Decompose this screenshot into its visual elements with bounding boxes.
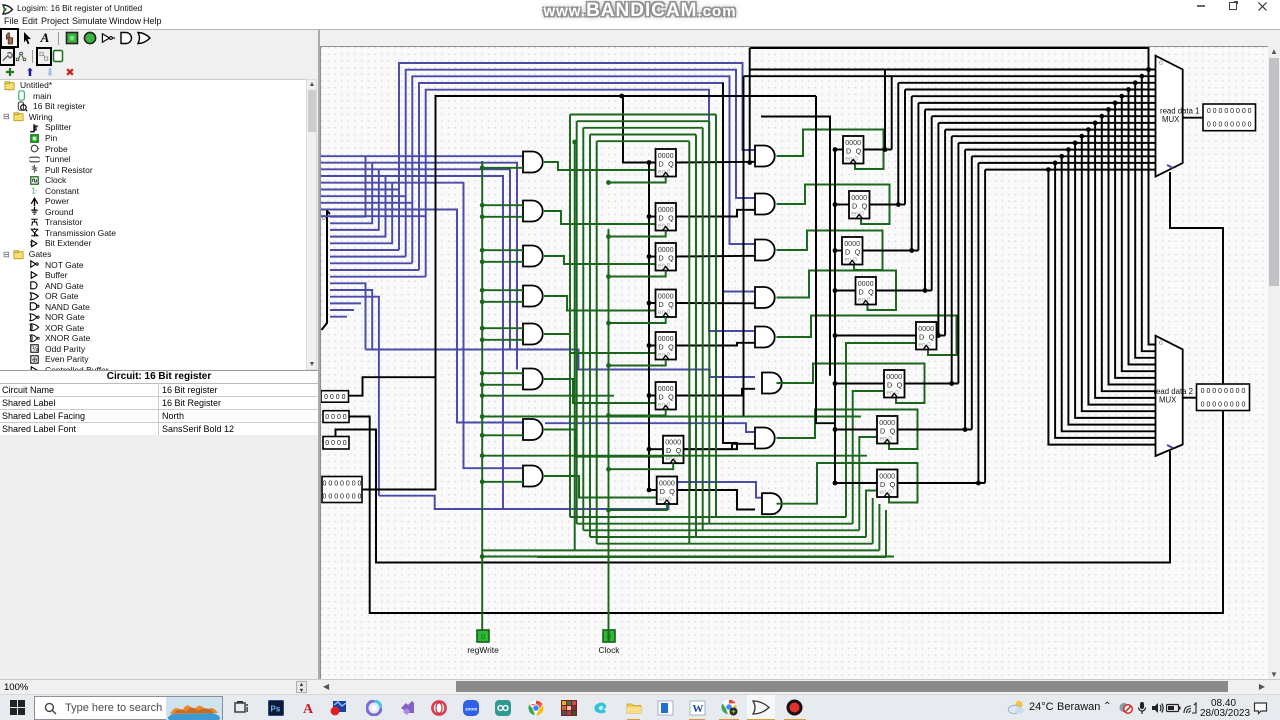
svg-text:Ps: Ps xyxy=(270,704,280,713)
wire ff1-1 Q to and2 xyxy=(676,161,755,164)
wire ff1-6 D stub xyxy=(649,395,656,397)
svg-text:D: D xyxy=(845,248,850,257)
wire green ff1-6 clock hook xyxy=(609,410,666,416)
svg-text:Q: Q xyxy=(669,487,675,496)
wire blue bus top 3 xyxy=(419,83,755,292)
wire ff2-7 Q stub xyxy=(898,429,972,431)
wire ff1-5 Q to and2 xyxy=(676,343,755,346)
taskbar icon copilot xyxy=(365,699,382,716)
and gate A1-3 xyxy=(523,246,543,267)
taskbar icon zoom xyxy=(462,699,479,716)
wire data col1 vertical xyxy=(648,163,650,491)
wire green long y555.5 xyxy=(482,556,894,558)
svg-text:D: D xyxy=(880,427,885,436)
svg-text:Q: Q xyxy=(676,446,682,455)
wire ff2-5 Q stub xyxy=(937,335,946,337)
taskbar weather xyxy=(1007,699,1025,716)
svg-text:0 0 0 0 0 0 0 0: 0 0 0 0 0 0 0 0 xyxy=(1207,108,1252,115)
wire splitter fan 14 xyxy=(330,309,354,311)
wire green riser 573 xyxy=(574,142,576,550)
svg-text:0 0 0 0 0 0 0 0: 0 0 0 0 0 0 0 0 xyxy=(1207,122,1252,129)
flip-flop FF1-6 xyxy=(656,382,677,410)
pin regWrite xyxy=(467,630,499,655)
flip-flop FF2-5 xyxy=(916,322,937,350)
wire ff2-4 D stub xyxy=(835,290,856,292)
taskbar icon logisim (active) xyxy=(747,695,775,720)
svg-text:Q: Q xyxy=(897,381,903,390)
pin output readdata1 xyxy=(1183,117,1203,119)
svg-text:Clock: Clock xyxy=(599,645,621,655)
wire vertical x748 xyxy=(749,48,751,163)
wire blue weave 3 xyxy=(321,176,503,509)
wire blue edge entry 4 xyxy=(321,215,426,217)
bandicam watermark xyxy=(0,0,1280,22)
svg-text:W: W xyxy=(692,703,703,715)
wire ff2-8 Q stub xyxy=(898,482,986,484)
and gate A1-7 xyxy=(523,419,543,440)
wire splitter fan 2 xyxy=(330,169,379,230)
svg-text:0 0 0 0 0 0 0: 0 0 0 0 0 0 0 xyxy=(323,494,362,501)
svg-text:½: ½ xyxy=(32,346,38,354)
svg-text:0 0 0 0: 0 0 0 0 xyxy=(325,414,347,421)
taskbar icon bandicam recording xyxy=(786,699,803,716)
wire ff2-6 D stub xyxy=(835,383,884,385)
svg-text:D: D xyxy=(659,214,664,223)
taskbar icon word xyxy=(689,699,706,716)
wire ff2-3 D stub xyxy=(835,250,842,252)
wire mux1 select route xyxy=(349,172,1223,613)
flip-flop FF1-5 xyxy=(656,332,677,360)
mux MUX1 read data 1 xyxy=(1156,56,1183,177)
wire ff1-1 D stub xyxy=(649,162,656,164)
svg-text:Q: Q xyxy=(668,393,674,402)
wire blue select S2 xyxy=(366,350,756,378)
wire green and1-5 out xyxy=(544,334,656,353)
wire mux2 select route xyxy=(336,430,1171,563)
wire green and1-2 input xyxy=(482,216,523,218)
pin output readdata2 xyxy=(1183,397,1197,399)
taskbar icon app blue-red xyxy=(330,699,347,716)
wire ff1-3 Q to and2 xyxy=(676,255,755,258)
wire ff1-8 Q riser xyxy=(677,77,744,491)
wire green and1-3 input xyxy=(482,261,523,263)
wire green and1-5 input xyxy=(482,339,523,341)
svg-text:D: D xyxy=(887,381,892,390)
wire green ff1-3 clock hook xyxy=(609,271,666,277)
svg-text:D: D xyxy=(660,487,665,496)
wire splitter fan 7 xyxy=(330,262,412,264)
and gate A2-4 xyxy=(755,287,775,308)
svg-text:D: D xyxy=(659,300,664,309)
wire ff2-5 D stub xyxy=(835,335,916,337)
wire blue edge entry 2 xyxy=(321,202,412,204)
wire blue bus top 1 xyxy=(406,70,755,257)
svg-text:D: D xyxy=(919,333,924,342)
wire data col2 vertical xyxy=(816,96,835,423)
and gate A1-1 xyxy=(523,152,543,173)
svg-text:D: D xyxy=(859,288,864,297)
wire ff2-8 D stub xyxy=(835,482,877,484)
svg-text:Q: Q xyxy=(668,343,674,352)
wire green and1-4 out xyxy=(544,296,656,311)
wire green ff1-1 clock hook xyxy=(609,177,666,183)
wire green and2-1 loop xyxy=(777,130,884,170)
flip-flop FF1-4 xyxy=(656,290,677,318)
left panel xyxy=(0,30,318,679)
svg-text:D: D xyxy=(659,160,664,169)
wire data col1 trunk xyxy=(623,96,656,163)
flip-flop FF1-8 xyxy=(657,477,678,505)
wire ff1-2 Q to and2 xyxy=(676,210,755,217)
svg-text:Q: Q xyxy=(890,480,896,489)
pin input write-data xyxy=(322,477,362,503)
svg-text:Q: Q xyxy=(856,147,862,156)
flip-flop FF2-7 xyxy=(877,416,898,444)
wire green and1-2 input b xyxy=(482,204,523,206)
svg-text:zoom: zoom xyxy=(465,706,477,711)
taskbar icon visual studio xyxy=(398,699,415,716)
svg-text:-: - xyxy=(35,186,38,195)
wire ff2-3 Q stub xyxy=(863,250,919,252)
svg-text:Q: Q xyxy=(855,248,861,257)
svg-text:Q: Q xyxy=(868,288,874,297)
properties table xyxy=(0,370,318,437)
wire green and1-8 out xyxy=(544,476,657,498)
wire green bottom stack xyxy=(570,516,846,518)
wire ff2-4 Q stub xyxy=(876,290,932,292)
wire data col2 r2 xyxy=(761,117,830,376)
wire splitter fan 6 xyxy=(330,256,406,258)
flip-flop FF2-3 xyxy=(842,237,863,265)
wire splitter fan 15 xyxy=(330,316,347,318)
taskbar icon opera xyxy=(430,699,447,716)
and gate A2-1 xyxy=(755,146,775,167)
output box read data 2 xyxy=(1197,384,1250,411)
wire blue edge entry 1 xyxy=(321,195,406,197)
wire green and1-8 input xyxy=(482,481,523,483)
wire write data trunk xyxy=(362,96,816,490)
wire splitter fan 9 xyxy=(330,276,426,278)
status bar xyxy=(0,679,1280,694)
wire ff1-7 Q riser xyxy=(684,83,738,449)
wire blue weave 4 xyxy=(321,183,523,469)
taskbar icon chrome profile xyxy=(721,699,738,716)
svg-text:Q: Q xyxy=(862,202,868,211)
wire blue row7 xyxy=(545,423,755,432)
wire splitter fan 5 xyxy=(330,249,399,251)
wire ff2-6 Q stub xyxy=(905,383,959,385)
wire green and1-2 out xyxy=(544,211,656,224)
svg-text:MUX: MUX xyxy=(1159,396,1177,405)
svg-text:⊕: ⊕ xyxy=(32,357,38,364)
flip-flop FF1-1 xyxy=(656,149,677,177)
wire blue weave 2 xyxy=(321,169,510,349)
wire green and1-6 out xyxy=(544,379,656,403)
and gate A2-6 xyxy=(762,373,782,394)
wire blue weave 1 xyxy=(321,163,517,370)
svg-text:0 0 0 0: 0 0 0 0 xyxy=(325,440,347,447)
and gate A1-6 xyxy=(523,369,543,390)
svg-text:0: 0 xyxy=(1159,340,1163,347)
taskbar icon photoshop xyxy=(267,699,284,716)
taskbar icon explorer xyxy=(625,699,642,716)
and gate A2-5 xyxy=(755,327,775,348)
wire green and2-4 loop xyxy=(777,271,897,311)
wire splitter fan 4 xyxy=(330,183,392,244)
taskbar icon voov xyxy=(494,699,511,716)
vertical scrollbar xyxy=(1268,46,1280,680)
wire ff1-5 D stub xyxy=(649,345,656,347)
svg-text:D: D xyxy=(666,446,671,455)
wire ff1-4 Q to and2 xyxy=(676,302,755,304)
wire green and2-3 loop xyxy=(777,231,883,271)
wire ff2-2 Q stub xyxy=(870,204,906,206)
svg-text:0: 0 xyxy=(481,634,485,641)
wire green long y394.7 xyxy=(482,395,614,397)
wire ff1-7 D stub xyxy=(649,448,663,450)
canvas xyxy=(320,46,1268,680)
pin input box2 (read reg 2) xyxy=(323,411,349,423)
svg-text:0: 0 xyxy=(1159,60,1163,67)
flip-flop FF2-8 xyxy=(877,470,898,498)
taskbar icon game xyxy=(560,699,577,716)
and gate A1-8 xyxy=(523,466,543,487)
splitter SP1 xyxy=(322,211,331,330)
svg-text:D: D xyxy=(659,254,664,263)
and gate A1-5 xyxy=(523,324,543,345)
canvas grid xyxy=(321,47,1269,681)
horizontal scrollbar xyxy=(320,680,1268,693)
wire green and1-3 input b xyxy=(482,249,523,251)
taskbar icon autocad xyxy=(300,699,317,716)
wire top bus y47 xyxy=(750,48,1149,70)
taskbar icon pdf app xyxy=(657,699,674,716)
svg-text:D: D xyxy=(659,393,664,402)
svg-text:regWrite: regWrite xyxy=(467,645,499,655)
svg-text:D: D xyxy=(846,147,851,156)
wire green long y454.7 xyxy=(482,455,867,457)
wire green ff1-7 clock hook xyxy=(609,463,674,469)
wire ff1-8 D stub xyxy=(649,489,657,491)
wire green and1-5 input b xyxy=(482,327,523,329)
wire blue bus top 0 xyxy=(399,63,755,250)
taskbar xyxy=(0,694,1280,720)
wire green and2-2 loop xyxy=(777,185,890,225)
wire ff2-2 D stub xyxy=(835,204,849,206)
wire green ff1-2 clock hook xyxy=(609,231,666,237)
wire ff2-1 D stub xyxy=(835,149,843,151)
taskbar icon films xyxy=(233,699,250,716)
wire box1 route xyxy=(349,377,436,396)
mux MUX2 read data 2 xyxy=(1156,336,1183,456)
flip-flop FF2-1 xyxy=(843,136,864,164)
svg-text:Q: Q xyxy=(668,214,674,223)
wire blue weave 0 (to AND1 r1 top) xyxy=(321,155,523,157)
wire ff1-2 D stub xyxy=(649,216,656,218)
svg-text:0 0 0 0: 0 0 0 0 xyxy=(324,394,346,401)
wire green and2-8 loop xyxy=(777,463,918,504)
wire green ff1-4 clock hook xyxy=(609,317,666,323)
wire splitter fan 11 xyxy=(330,290,372,350)
wire green and1-7 out xyxy=(544,430,663,457)
flip-flop FF2-2 xyxy=(849,191,870,219)
wire ff1-8 Q to and2 xyxy=(677,490,755,510)
taskbar start button xyxy=(9,699,26,716)
wire green and1-3 out xyxy=(544,256,656,264)
wire splitter fan 12 xyxy=(330,297,379,496)
taskbar icon paint3d xyxy=(592,699,609,716)
svg-text:Q: Q xyxy=(668,300,674,309)
flip-flop FF1-2 xyxy=(656,203,677,231)
svg-text:0 0 0 0 0 0 0 0: 0 0 0 0 0 0 0 0 xyxy=(1201,388,1246,395)
wire blue edge entry 3 (to AND1 r7) xyxy=(321,210,523,423)
and gate A2-8 xyxy=(762,493,782,514)
wire ff2-7 D stub xyxy=(835,429,877,431)
wire green clock riser xyxy=(608,229,610,642)
wire ff1-4 D stub xyxy=(649,302,656,304)
and gate A1-2 xyxy=(523,201,543,222)
wire ff2-1 Q stub xyxy=(864,149,892,151)
and gate A2-7 xyxy=(755,428,775,449)
flip-flop FF1-7 xyxy=(663,436,684,464)
wire green ff1-5 clock hook xyxy=(609,360,666,366)
pin Clock xyxy=(599,630,621,655)
pin input box1 (read reg 1) xyxy=(321,391,349,403)
title bar xyxy=(0,0,1280,15)
wire blue edge entry 0 xyxy=(321,189,399,191)
svg-text:0 0 0 0 0 0 0 0: 0 0 0 0 0 0 0 0 xyxy=(1201,401,1246,408)
output box read data 1 xyxy=(1203,104,1256,131)
wire green and2-5 loop xyxy=(777,316,957,356)
wire green and1-6 input xyxy=(482,384,523,386)
wire green and1-4 input xyxy=(482,301,523,303)
svg-text:MUX: MUX xyxy=(1162,115,1180,124)
and gate A1-4 xyxy=(523,286,543,307)
wire green ff1-8 clock hook xyxy=(609,504,667,510)
svg-text:A: A xyxy=(303,702,314,716)
flip-flop FF2-6 xyxy=(884,370,905,398)
wire Q bundle staircase xyxy=(884,70,886,150)
wire splitter fan 3 xyxy=(330,176,386,237)
wire green and1-1 out xyxy=(544,162,656,170)
wire green top mesh xyxy=(570,114,716,116)
flip-flop FF1-3 xyxy=(656,243,677,271)
wire green and2-6 loop xyxy=(777,364,925,404)
wire green regWrite riser xyxy=(481,161,483,642)
svg-text:D: D xyxy=(659,343,664,352)
wire green and1-7 input xyxy=(482,434,523,436)
wire blue select S1 xyxy=(379,482,762,509)
wire green and2-7 loop xyxy=(777,410,918,450)
taskbar icon chrome xyxy=(527,699,544,716)
wire splitter fan 0 xyxy=(330,156,366,217)
svg-text:Q: Q xyxy=(668,160,674,169)
wire blue bus top 4 xyxy=(426,90,755,331)
svg-text:D: D xyxy=(880,480,885,489)
wire green long y415.5 xyxy=(482,416,861,418)
wire splitter fan 8 xyxy=(330,269,419,271)
wire splitter fan 10 xyxy=(330,283,366,349)
wire blue bus top 2 xyxy=(412,76,755,263)
wire green and1-6 input b xyxy=(482,372,523,374)
menu bar xyxy=(0,15,1280,29)
pin input box3 (write reg) xyxy=(323,437,349,450)
wire splitter fan 1 xyxy=(330,163,372,224)
and gate A2-3 xyxy=(755,240,775,261)
wire green and1-4 input b xyxy=(482,289,523,291)
flip-flop FF2-4 xyxy=(856,277,877,305)
svg-text:D: D xyxy=(852,202,857,211)
wire ff1-7 Q to and2 xyxy=(684,444,756,449)
svg-text:Q: Q xyxy=(668,254,674,263)
wire ff1-6 Q to and2 xyxy=(676,389,755,396)
svg-text:Q: Q xyxy=(929,333,935,342)
wire green and1-1 input xyxy=(482,167,523,169)
wire splitter fan 13 xyxy=(330,302,361,304)
taskbar search box xyxy=(34,696,223,720)
svg-text:Q: Q xyxy=(890,427,896,436)
svg-text:0 0 0 0 0 0 0: 0 0 0 0 0 0 0 xyxy=(323,481,362,488)
wire ff1-3 D stub xyxy=(649,256,656,258)
and gate A2-2 xyxy=(755,194,775,215)
